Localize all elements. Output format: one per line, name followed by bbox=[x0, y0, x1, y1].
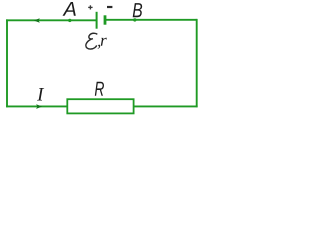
label script-E (EMF) bbox=[86, 33, 97, 49]
current arrow I on bottom wire (pointing right) bbox=[36, 104, 42, 109]
plus sign bbox=[88, 5, 92, 9]
node A dot bbox=[68, 19, 71, 22]
battery negative plate (short) bbox=[104, 15, 107, 24]
comma after script-E bbox=[98, 45, 100, 49]
minus sign bbox=[107, 6, 112, 8]
label B bbox=[133, 3, 142, 17]
wire right vertical bbox=[196, 19, 198, 107]
resistor R box bbox=[67, 99, 133, 113]
label R bbox=[95, 82, 104, 96]
wire bottom-left segment bbox=[6, 105, 67, 107]
battery positive plate (long) bbox=[96, 12, 98, 29]
label r (internal resistance) bbox=[101, 38, 107, 46]
label A bbox=[63, 2, 76, 16]
wire top-left segment bbox=[6, 19, 97, 21]
wire left vertical bbox=[6, 19, 8, 107]
wire top-right segment bbox=[105, 19, 197, 21]
label I (current) bbox=[37, 88, 44, 100]
wire bottom-right segment bbox=[134, 105, 198, 107]
node B dot bbox=[133, 18, 136, 21]
current arrow on top wire (pointing left) bbox=[34, 18, 40, 23]
